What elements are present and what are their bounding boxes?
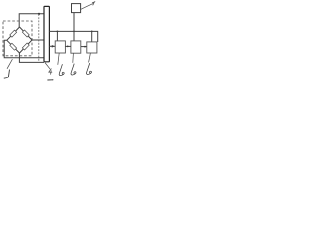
label 4 numeral <box>49 69 52 75</box>
bridge (Wheatstone) diamond arms <box>7 27 32 53</box>
wire: block A to block B <box>65 45 71 47</box>
wire: bus drop to box A <box>56 31 58 41</box>
oscillator block 7 (top-right small box) <box>72 4 81 13</box>
leader line to label 6 (block A) <box>58 53 59 65</box>
label under block C <box>86 63 91 74</box>
label 7 (top right numeral) <box>92 2 95 6</box>
label 6 under block A <box>59 64 64 75</box>
wire: block B to block C <box>81 46 87 48</box>
resistor R1 (top-left arm) <box>10 30 17 37</box>
resistor R4 (bottom-right arm) <box>22 43 29 50</box>
wire: top box down to bus <box>73 13 75 32</box>
wire: dashed vertical feedback line <box>38 14 40 62</box>
node: junction dot on top wire <box>38 13 40 15</box>
wire: bridge top vertex up and right to amplifier <box>19 14 44 27</box>
wire: bridge right vertex to amplifier input <box>32 39 44 41</box>
resistor R3 (bottom-left arm) <box>10 43 17 50</box>
node dot between A and B <box>67 46 69 48</box>
wire: bridge left vertex down and right to amplifier <box>4 40 44 58</box>
node dots on bus <box>57 31 59 33</box>
node dot between B and C <box>84 46 86 48</box>
block C (box 8) <box>87 42 97 53</box>
wire: output bus from amplifier right edge <box>49 31 97 42</box>
dashed enclosure box (sensor unit 1) <box>3 21 32 56</box>
wire: bus drop to box C <box>91 31 93 42</box>
leader line to label 1 (bridge) <box>7 59 12 69</box>
wire: bus drop to box B <box>73 31 75 41</box>
leader line to label 4 (amplifier) <box>45 63 50 70</box>
wire with arrow: amplifier to block A <box>49 45 55 47</box>
label under block B <box>71 64 76 75</box>
wire: bridge bottom vertex down and right to amplifier bottom <box>19 53 44 62</box>
leader line to label under block C <box>89 53 91 62</box>
caption dash under label 4 <box>47 79 52 81</box>
block B (box 7) <box>71 41 81 53</box>
leader line to label 6b (block B) <box>72 53 75 63</box>
block A (box 6) <box>55 41 65 53</box>
leader line to label 7 (top right) <box>81 4 93 10</box>
amplifier block 4 (tall rectangle) <box>44 6 49 61</box>
label 1 (bottom-left numeral) <box>8 70 9 78</box>
resistor R2 (top-right arm) <box>22 30 29 37</box>
